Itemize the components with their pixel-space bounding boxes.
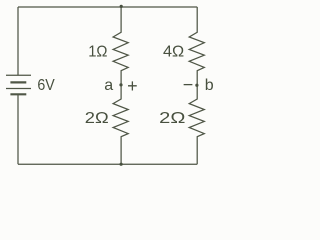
svg-text:2Ω: 2Ω [159, 110, 185, 127]
svg-text:4Ω: 4Ω [163, 43, 184, 60]
svg-text:1Ω: 1Ω [88, 43, 107, 60]
svg-text:+: + [127, 76, 138, 96]
svg-text:6V: 6V [37, 77, 55, 94]
svg-text:2Ω: 2Ω [85, 110, 109, 127]
svg-text:b: b [205, 77, 214, 94]
svg-text:−: − [183, 75, 194, 95]
svg-text:a: a [104, 77, 113, 94]
